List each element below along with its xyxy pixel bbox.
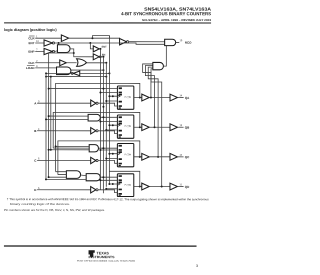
wire QA to pin [177,97,183,99]
bus line left B [48,53,50,177]
header rule [4,22,211,23]
junction clock on bus [105,62,107,64]
wire enable chain to left bus [49,52,74,54]
wire ENT drop to internal buffer [90,43,93,49]
svg-text:P (T)N: P (T)N [125,126,132,128]
TI logo emblem [89,250,95,257]
junction QC feedback tap [139,156,141,158]
output buffer 1 QB [142,124,149,131]
wire QB to pin [177,126,183,128]
wire D enable cascade [81,174,87,177]
wires bus to flip-flop B inputs [99,120,117,131]
output buffer 2 QB [170,124,177,131]
wire load feedback left segment [46,72,72,74]
inverter ENP [44,48,55,54]
input CLK pin 2 label [28,60,38,65]
junction load feedback right [108,72,110,74]
inverter data C [91,157,98,163]
wire flip-flop D output [134,186,142,188]
footnote pin numbers [4,208,105,212]
junction QD on feedback bus [161,186,163,188]
input LOAD pin 9 label [26,65,38,70]
page title line 1 [144,7,212,12]
document number line [142,18,212,22]
svg-text:INSTRUMENTS: INSTRUMENTS [89,255,115,259]
wire QC to pin [177,156,183,158]
buffer EN internal [93,54,101,60]
junction ENT to internal buffer [89,42,91,44]
footer rule [4,245,197,246]
feedback crossover QC to lower AND [58,141,140,175]
wire internal line lower [46,76,106,78]
wire LOAD input [35,67,56,69]
input D pin 6 label [34,187,40,192]
svg-text:CLK: CLK [28,61,35,65]
wire data C input [37,159,91,161]
inverter data D [91,187,98,193]
feedback riser hook QD [109,171,139,186]
wire load AND output [71,69,104,71]
section heading logic diagram [4,28,57,32]
wire ENP input [35,50,44,52]
junction internal lower left [45,76,47,78]
wire data B input [37,130,91,132]
feedback crossover QB to lower AND [53,112,140,148]
svg-text:P (T)N: P (T)N [125,97,132,99]
svg-text:ENT: ENT [29,41,35,45]
output buffer 1 QA [142,94,149,101]
wire ENT input [35,42,44,44]
svg-text:Pin numbers shown are for the: Pin numbers shown are for the D, DB, DGV… [4,208,105,212]
junction ENT to enable AND [58,42,60,44]
page title line 2 [121,11,211,16]
junction CLR branch to bus [91,37,93,39]
junction enable chain branch [73,52,75,54]
wire EN buffered to bus [100,56,103,58]
wire data A input [37,102,91,104]
junction EN bus [102,56,104,58]
output QA pin 14 label [179,94,190,99]
TI logo TEXAS [96,251,109,255]
buffer CLK [60,60,67,66]
svg-text:RCO: RCO [185,41,192,45]
riser enable chain segment [50,76,52,150]
wire QD feedback riser to carry AND [151,69,162,187]
wire enable AND D output [100,176,117,178]
svg-text:CLR: CLR [28,36,35,40]
wire data D to flip-flop [98,190,117,193]
flip-flop C (bit 2) [117,144,133,167]
wire data B to flip-flop [98,131,117,134]
input C pin 5 label [34,158,40,163]
footnote dagger line 2 [10,202,70,206]
OR gate clock control [77,59,87,67]
output buffer 2 QC [170,153,177,160]
AND gate RCO [165,39,176,45]
junction load feedback left [45,72,47,74]
wire flip-flop C output [134,156,142,158]
inverter data A [91,100,98,106]
AND gate ENT-ENP enable [57,45,70,53]
AND gate enable bit D second [86,174,100,181]
wire carry chain to RCO gate [163,46,166,67]
inverter ENT [44,40,55,46]
wire RCO output [176,41,180,43]
wire CLR buffered [69,38,120,42]
input B pin 4 label [34,128,40,133]
junction QD feedback tap [139,186,141,188]
wire enable AND output [70,49,93,57]
wire QC feedback riser to carry AND [148,67,158,157]
wires enable AND B inputs [45,115,88,120]
junction QB feedback tap [139,126,141,128]
TI logo INSTRUMENTS [89,255,115,259]
wire QC between buffers [149,156,170,158]
bus line right 2 [102,57,104,193]
wire CLR branch over to bus [92,36,109,39]
wire QB between buffers [149,126,170,128]
label ENT net [102,46,107,49]
wire ENT buffered to RCO gate [55,43,165,44]
buffer CLR [61,35,68,42]
wire ENP to enable AND [55,50,58,53]
wires bus to flip-flop A inputs [99,91,117,102]
svg-text:4-BIT SYNCHRONOUS BINARY COUNT: 4-BIT SYNCHRONOUS BINARY COUNTERS [121,11,211,16]
junction QA feedback tap [139,97,141,99]
svg-text:binary counting logic of the d: binary counting logic of the devices. [10,202,70,206]
page number [196,264,198,268]
wire enable AND D second lower input [45,178,86,180]
svg-text:ENP: ENP [28,50,34,54]
svg-text:LOAD: LOAD [26,66,35,70]
wire QD to pin [177,186,183,188]
inverter data B [91,128,98,134]
wire data A to flip-flop [98,103,117,108]
junction QB on feedback bus [154,126,156,128]
wire clock OR output to bus [87,62,107,64]
label EN net [102,54,106,57]
wire enable AND C output [98,147,117,149]
output QC pin 12 label [179,154,190,159]
output QD pin 11 label [179,183,190,188]
wire CLK input [35,62,59,64]
output QB pin 13 label [179,124,190,129]
AND gate enable bit C [89,145,98,152]
wire ENT drop to enable AND [58,43,60,45]
junction load AND out on bus [102,69,104,71]
svg-text:ENT: ENT [102,46,107,49]
bus line right 1 [99,49,101,190]
junction ENT internal output [99,48,101,50]
bus line left A [45,73,47,179]
svg-text:SCLS376C – APRIL 1998 – REVISE: SCLS376C – APRIL 1998 – REVISED JULY 200… [142,18,212,22]
feedback crossover QA to lower AND [56,83,140,171]
wires bus to flip-flop D inputs [99,179,117,190]
svg-text:3: 3 [196,264,198,268]
output buffer 2 QD [170,183,177,190]
AND gate load control [57,67,71,75]
wire QA between buffers [149,97,170,99]
buffer ENT internal [93,46,99,52]
svg-text:P (T)N: P (T)N [125,185,132,187]
bus line right 4 [108,36,110,185]
wire QD between buffers [149,186,170,188]
output buffer 1 QC [142,153,149,160]
svg-text:logic diagram (positive logic): logic diagram (positive logic) [4,28,57,32]
flip-flop B (bit 1) [117,115,133,138]
junction QC on feedback bus [157,156,159,158]
output buffer 2 QA [170,94,177,101]
footnote dagger line 1 [7,197,210,201]
wire flip-flop B output [134,126,142,128]
input CLR pin 1 label [28,35,38,40]
wire flip-flop A output [134,97,142,99]
wire load feedback right segment [80,72,110,74]
wire QA feedback riser to carry AND [143,64,153,98]
AND gate carry chain [153,62,164,69]
wire CLK to OR gate [66,62,76,64]
svg-text:POST OFFICE BOX 655303 • DALLA: POST OFFICE BOX 655303 • DALLAS, TEXAS 7… [77,260,136,263]
AND gate enable bit D first [66,171,80,179]
bus line right 3 [105,63,107,187]
inverter on CLR line [120,39,129,45]
svg-text:P (T)N: P (T)N [125,154,132,156]
output buffer 1 QD [142,183,149,190]
wire CLR input [35,37,61,39]
input ENT pin 10 label [29,40,40,45]
wire enable AND B output [100,116,117,118]
footer address line [77,260,136,263]
flip-flop D (bit 3) [117,174,133,197]
wires enable AND C inputs [48,145,90,150]
junction internal lower right [105,76,107,78]
input ENP pin 7 label [28,49,38,54]
wire data D input [37,189,91,191]
svg-text:† This symbol is in accordance: † This symbol is in accordance with ANSI… [7,197,210,201]
wire data C to flip-flop [98,160,117,163]
wire enable to bit A [48,88,118,90]
junction QA on feedback bus [150,97,152,99]
output RCO pin 15 label [179,39,192,44]
flip-flop A (bit 0) [117,86,133,109]
wire QB feedback riser to carry AND [145,66,154,128]
wire CLR inverted to RCO gate [129,41,165,43]
wires enable AND D first inputs [48,172,67,179]
AND gate enable bit B [88,114,100,121]
input A pin 3 label [34,100,40,105]
wires bus to flip-flop C inputs [99,149,117,160]
inverter facing left on load feedback [71,71,80,76]
